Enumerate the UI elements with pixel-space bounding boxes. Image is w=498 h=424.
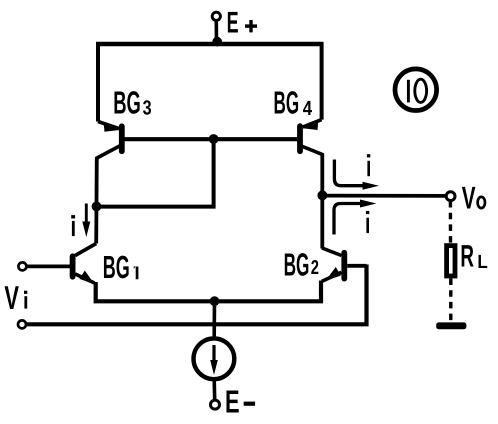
wire BG3 collector to BG1 collector (94, 157, 98, 244)
resistor RL (447, 246, 455, 276)
wire emitter rail to current source (212, 301, 216, 337)
label Vi (4, 279, 27, 316)
wire dashed RL to ground (449, 279, 452, 322)
junction base tie (209, 134, 219, 144)
wire shared base line BG3-BG4 (125, 137, 298, 141)
svg-text:BG: BG (284, 246, 310, 282)
current arrow i upper (BG4 collector current) (334, 160, 379, 190)
junction output node (317, 190, 327, 200)
label Vo (462, 180, 485, 216)
svg-text:R: R (460, 239, 474, 274)
junction emitter rail tail tap (210, 296, 220, 306)
svg-text:V: V (4, 279, 19, 316)
ground (436, 322, 466, 329)
wire upper input to BG1 base (27, 264, 70, 268)
label BG4 (274, 85, 313, 121)
label E+ (227, 7, 257, 40)
wire right supply drop to BG4 emitter (320, 43, 324, 120)
label i (mirror current) (71, 215, 75, 236)
transistor BG4 (300, 120, 322, 155)
terminal Vo (446, 192, 455, 201)
svg-text:L: L (477, 252, 488, 273)
label i upper (367, 154, 370, 176)
svg-text:BG: BG (103, 249, 130, 285)
wire left supply drop to BG3 emitter (96, 43, 100, 122)
label BG2 (284, 246, 319, 282)
wire lower input to BG2 base (26, 265, 366, 325)
label i lower (366, 211, 369, 233)
svg-text:2: 2 (311, 257, 319, 279)
current arrow i into BG1 collector (82, 204, 90, 238)
junction BG3 collector / diode connection (92, 202, 102, 212)
svg-text:BG: BG (113, 85, 141, 121)
label BG1 (103, 249, 139, 285)
wire E+ to top rail (215, 21, 219, 44)
svg-text:3: 3 (143, 96, 152, 119)
wire output node vertical (BG4 collector to BG2 collector) (320, 154, 324, 249)
svg-text:4: 4 (303, 97, 313, 120)
terminal E- (211, 400, 220, 409)
label BG3 (113, 85, 151, 121)
current source I0 (194, 338, 235, 379)
wire dashed Vo to RL (449, 201, 453, 243)
transistor BG1 (73, 244, 97, 285)
transistor BG2 (322, 248, 367, 281)
terminal upper input (18, 262, 26, 270)
wire output node to Vo terminal (322, 194, 446, 198)
terminal E+ (212, 12, 220, 20)
svg-text:BG: BG (274, 85, 300, 121)
svg-text:E: E (225, 384, 240, 420)
wire current source to E- (212, 380, 216, 400)
svg-text:V: V (462, 180, 476, 216)
svg-text:E: E (227, 7, 239, 40)
junction E+ tap on top rail (212, 37, 222, 47)
figure number 10 (395, 69, 437, 111)
wire emitter rail BG1 to BG2 (96, 281, 321, 302)
terminal lower input (18, 320, 26, 328)
wire top supply rail (96, 42, 324, 46)
label RL (460, 239, 488, 274)
label E- (225, 384, 255, 420)
transistor BG3 (97, 122, 122, 160)
wire base to BG3 collector tie (97, 139, 214, 207)
current arrow i lower (BG2 collector current) (334, 200, 377, 235)
